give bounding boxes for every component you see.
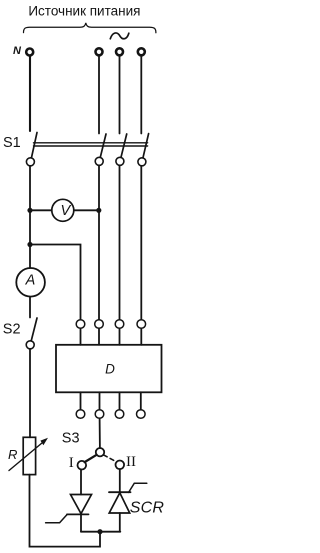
svg-text:N: N (13, 45, 22, 57)
D input terminal 4 (137, 320, 146, 329)
wire A meter to S2 (29, 297, 31, 318)
switch S2 contact circle (26, 341, 34, 349)
thyristor VS1 triangle (71, 495, 92, 514)
switch S1 pole 3 contact circle (138, 158, 146, 166)
svg-text:S3: S3 (62, 431, 80, 447)
wire V meter left (30, 209, 51, 211)
wire S2 to R (29, 349, 31, 437)
wire stub D input 4 to box (140, 328, 142, 344)
wire stub D output 2 from box (99, 392, 101, 409)
switch S1 pole 3 blade (143, 134, 149, 158)
D output terminal 3 (115, 410, 124, 419)
wire R to bottom corner and bottom rail (30, 475, 101, 547)
svg-text:D: D (105, 362, 115, 377)
terminal phase 1 (96, 48, 103, 55)
thyristor VS2 triangle (109, 493, 130, 513)
wire phase2 vertical top (119, 56, 121, 134)
svg-text:S2: S2 (3, 322, 21, 338)
wire stub D input 2 to box (98, 328, 100, 344)
wire stub D input 3 to box (119, 328, 121, 344)
wire phase1: S1 to D input (98, 165, 100, 319)
svg-text:R: R (8, 447, 17, 462)
D output terminal 2 (95, 410, 104, 419)
wire stub D output 3 from box (119, 392, 121, 409)
svg-text:V: V (60, 203, 71, 219)
thyristor VS2 anode wire (119, 513, 121, 532)
D output terminal 1 (76, 410, 85, 419)
node: bottom junction (97, 529, 102, 534)
D input terminal 2 (95, 320, 104, 329)
S3 position II contact circle (116, 461, 125, 470)
switch S3 dashed to position II (104, 455, 117, 462)
resistor R body (23, 437, 35, 474)
node: V meter right junction on phase1 (96, 208, 101, 213)
switch S1 pole 2 blade (121, 134, 127, 157)
switch S3 blade to position I (85, 455, 97, 462)
thyristor VS1 cathode bar (67, 513, 89, 515)
terminal phase 2 (116, 48, 123, 55)
wire stub D output 1 from box (80, 392, 82, 409)
wire N: S1 to V junction (29, 166, 31, 244)
wire phase3 vertical top (140, 56, 142, 134)
wire SCR bottom rail (81, 531, 120, 533)
svg-text:S1: S1 (3, 135, 21, 151)
thyristor VS1 gate (46, 514, 68, 522)
switch S1 pole 1 contact circle (95, 157, 103, 165)
switch S1 pole N blade (32, 133, 38, 158)
svg-text:A: A (25, 273, 36, 289)
wire phase2: S1 to D input (119, 165, 121, 319)
svg-text:II: II (126, 454, 136, 470)
wire junction to D input horizontal (30, 245, 81, 320)
S3 position I contact circle (78, 461, 87, 470)
switch S1 mechanical linkage double line (34, 142, 148, 144)
thyristor VS1 anode wire (80, 470, 82, 495)
brace under label (24, 23, 156, 33)
D input terminal 1 (76, 320, 85, 329)
svg-text:Источник питания: Источник питания (28, 4, 140, 19)
switch S2 blade (31, 318, 37, 341)
D output terminal 4 (137, 410, 146, 419)
terminal phase 3 (138, 48, 145, 55)
D input terminal 3 (115, 320, 124, 329)
svg-text:I: I (69, 455, 74, 471)
label: ~ (AC symbol) (110, 33, 129, 39)
block D box (56, 345, 162, 393)
terminal N circle (26, 49, 33, 56)
thyristor VS2 cathode bar (109, 491, 131, 493)
node: junction to D input 1 (27, 242, 32, 247)
svg-text:SCR: SCR (130, 500, 165, 517)
switch S1 pole N contact circle (26, 158, 34, 166)
switch S1 pole 2 contact circle (116, 157, 124, 165)
resistor R variable arrow (9, 441, 45, 471)
ammeter A circle (16, 268, 45, 297)
wire D output 2 to S3 pivot (99, 418, 101, 448)
thyristor VS1 cathode wire (80, 514, 82, 531)
wire stub D input 1 to box (80, 328, 82, 344)
wire N vertical top (29, 57, 31, 131)
wire phase3: S1 to D input (140, 166, 142, 320)
thyristor VS2 cathode wire (top) (119, 469, 121, 492)
wire stub D output 4 from box (140, 392, 142, 409)
thyristor VS2 gate (129, 483, 147, 492)
wire N: junction to A meter (29, 245, 31, 269)
node: V meter left junction (27, 208, 32, 213)
switch S3 pivot circle (96, 448, 104, 456)
wire V meter right (75, 209, 99, 211)
switch S1 pole 1 blade (100, 134, 106, 157)
wire phase1 vertical top (98, 56, 100, 134)
voltmeter V circle (52, 199, 74, 221)
